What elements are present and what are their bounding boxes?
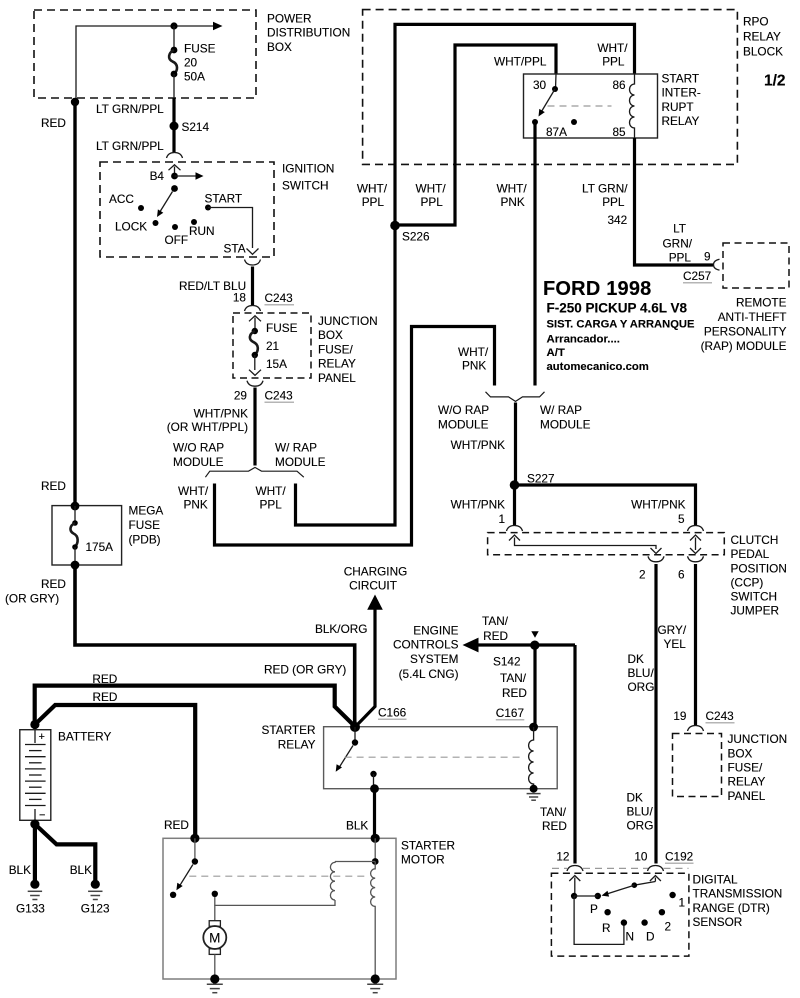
svg-text:BLU/: BLU/ xyxy=(627,805,654,819)
wire TAN/RED arrow to engine controls xyxy=(463,638,576,653)
svg-text:STA: STA xyxy=(224,242,246,256)
svg-text:175A: 175A xyxy=(86,540,114,554)
label DK BLU/ ORG lower xyxy=(627,791,654,833)
svg-text:2: 2 xyxy=(665,920,672,934)
start interrupt relay U1 box xyxy=(524,74,658,138)
svg-text:SWITCH: SWITCH xyxy=(731,590,778,604)
pin B4 entry arrow xyxy=(169,165,181,176)
label DK BLU/ ORG upper xyxy=(628,652,655,694)
svg-text:+: + xyxy=(39,731,45,743)
connector C257 arc xyxy=(714,259,720,270)
marker above S142 xyxy=(531,631,538,637)
node N contact xyxy=(621,919,627,925)
label TAN/ RED below S142 xyxy=(500,671,527,700)
label JUNCTION BOX FUSE/ RELAY PANEL 2 xyxy=(728,732,788,803)
svg-text:CIRCUIT: CIRCUIT xyxy=(349,579,397,593)
motor M1 xyxy=(203,921,226,955)
svg-text:(RAP) MODULE: (RAP) MODULE xyxy=(701,339,787,353)
svg-text:W/ RAP: W/ RAP xyxy=(540,403,582,417)
svg-text:RED: RED xyxy=(92,672,117,686)
svg-text:BLK/ORG: BLK/ORG xyxy=(315,622,367,636)
svg-text:WHT/: WHT/ xyxy=(597,41,628,55)
node 1 contact xyxy=(669,892,675,898)
svg-text:G123: G123 xyxy=(81,902,110,916)
label FUSE 21 15A xyxy=(266,321,298,371)
RAP module box xyxy=(723,243,789,288)
svg-text:G133: G133 xyxy=(16,902,45,916)
svg-text:LT GRN/PPL: LT GRN/PPL xyxy=(96,139,164,153)
svg-text:POWER: POWER xyxy=(267,12,312,26)
svg-text:−: − xyxy=(39,810,45,822)
wire BLK starter relay to motor xyxy=(373,789,376,839)
svg-text:FUSE/: FUSE/ xyxy=(318,342,353,356)
svg-text:BOX: BOX xyxy=(318,328,343,342)
starter motor hold coil L4 xyxy=(371,862,376,980)
svg-text:REMOTE: REMOTE xyxy=(736,295,787,309)
svg-text:S226: S226 xyxy=(402,230,430,244)
starter relay wiper pivot xyxy=(352,727,358,746)
DTR pin 12 entry arrow xyxy=(569,876,580,897)
wire LT GRN/PPL 342 from pin 85 xyxy=(635,138,714,265)
svg-text:1: 1 xyxy=(498,512,505,526)
svg-text:DIGITAL: DIGITAL xyxy=(693,873,738,887)
CCP internal jumper 1 to 2 xyxy=(509,535,662,554)
wire WHT/PPL to coil pin 86 (from W/RAP brace branch via S226) xyxy=(296,24,635,525)
connector C192 pin 12 arc xyxy=(567,866,583,872)
svg-text:SENSOR: SENSOR xyxy=(693,915,743,929)
CCP internal jumper 5 to 6 xyxy=(690,535,701,554)
svg-text:PEDAL: PEDAL xyxy=(731,547,770,561)
node S214 splice xyxy=(170,122,179,131)
label C243 xyxy=(265,389,295,403)
node 2 contact xyxy=(659,909,665,915)
ground starter relay coil xyxy=(527,794,541,801)
svg-text:RED (OR GRY): RED (OR GRY) xyxy=(264,663,346,677)
svg-text:LT GRN/: LT GRN/ xyxy=(582,181,628,195)
svg-text:WHT/: WHT/ xyxy=(416,182,447,196)
svg-text:WHT/PNK: WHT/PNK xyxy=(451,438,506,452)
svg-text:RED: RED xyxy=(41,116,66,130)
svg-text:RUPT: RUPT xyxy=(662,100,694,114)
svg-text:C243: C243 xyxy=(706,709,735,723)
starter relay internal dashed divider xyxy=(345,756,523,758)
svg-text:DK: DK xyxy=(628,652,645,666)
label C166 xyxy=(378,706,407,720)
svg-text:MODULE: MODULE xyxy=(173,455,224,469)
label CLUTCH PEDAL POSITION (CCP) SWITCH JUMPER xyxy=(731,533,787,618)
DTR sensor box xyxy=(551,873,689,956)
starter relay coil L2 xyxy=(529,727,534,789)
wire S227 to CCP pin 1 xyxy=(513,485,516,526)
label JUNCTION BOX FUSE/ RELAY PANEL xyxy=(318,314,378,385)
node S226 splice xyxy=(390,221,400,231)
svg-text:PPL: PPL xyxy=(602,55,625,69)
svg-text:RELAY: RELAY xyxy=(728,775,766,789)
svg-text:STARTER: STARTER xyxy=(401,839,455,853)
svg-text:18: 18 xyxy=(233,291,247,305)
STA exit arrow xyxy=(247,249,259,255)
svg-text:C192: C192 xyxy=(665,850,693,864)
wire RED (OR GRY) to starter relay xyxy=(75,565,355,726)
svg-text:INTER-: INTER- xyxy=(662,86,701,100)
starter motor box xyxy=(163,838,396,979)
node relay pin 87 unconnected xyxy=(571,119,577,125)
svg-text:19: 19 xyxy=(673,709,686,723)
wire WHT/PNK merged stem xyxy=(514,403,517,486)
wire S227 to CCP pin 5 xyxy=(515,485,696,526)
svg-text:RELAY: RELAY xyxy=(318,357,356,371)
DTR wiper from pin 10 xyxy=(602,882,656,897)
node D contact xyxy=(641,919,647,925)
node P contact xyxy=(595,893,601,899)
node starter relay output xyxy=(370,784,379,793)
label POWER DISTRIBUTION BOX xyxy=(267,12,350,54)
svg-text:ANTI-THEFT: ANTI-THEFT xyxy=(718,310,787,324)
switch feed arrow right xyxy=(175,172,204,179)
wire RED/LT BLU xyxy=(251,267,254,306)
label REMOTE ANTI-THEFT PERSONALITY (RAP) MODULE xyxy=(701,295,787,353)
label WHT/ PNK branch xyxy=(178,484,209,512)
svg-text:W/O RAP: W/O RAP xyxy=(173,441,224,455)
svg-text:6: 6 xyxy=(678,568,685,582)
svg-text:PPL: PPL xyxy=(669,250,692,264)
label C243 xyxy=(265,291,295,305)
svg-text:342: 342 xyxy=(608,213,628,227)
relay coil L1 xyxy=(630,74,635,138)
svg-text:WHT/: WHT/ xyxy=(357,182,388,196)
svg-text:BLU/: BLU/ xyxy=(628,666,655,680)
svg-text:LT GRN/PPL: LT GRN/PPL xyxy=(96,102,164,116)
svg-text:BLK: BLK xyxy=(70,863,92,877)
svg-text:BOX: BOX xyxy=(267,40,292,54)
svg-text:TAN/: TAN/ xyxy=(500,671,527,685)
svg-text:MEGA: MEGA xyxy=(129,503,164,517)
connector CCP pin 6 arc xyxy=(688,556,704,562)
svg-text:(OR GRY): (OR GRY) xyxy=(5,592,59,606)
svg-text:M: M xyxy=(209,931,220,946)
wire TAN/RED S142 to C167 xyxy=(533,645,536,727)
label LT GRN/ PPL to C257 xyxy=(663,221,693,264)
label RED (OR GRY) xyxy=(5,577,66,606)
switch wiper toward LOCK xyxy=(157,192,173,218)
svg-text:30: 30 xyxy=(533,78,547,92)
ignition switch box xyxy=(100,162,274,257)
svg-text:BATTERY: BATTERY xyxy=(58,729,111,743)
svg-text:MODULE: MODULE xyxy=(438,418,489,432)
label WHT/ PPL wire A xyxy=(357,182,388,210)
svg-text:DISTRIBUTION: DISTRIBUTION xyxy=(267,26,350,40)
node START contact xyxy=(205,205,211,211)
svg-text:BOX: BOX xyxy=(728,746,753,760)
svg-text:(OR WHT/PPL): (OR WHT/PPL) xyxy=(167,420,248,434)
label LT GRN/ PPL 342 xyxy=(582,181,628,209)
svg-text:ACC: ACC xyxy=(109,192,134,206)
svg-text:F-250 PICKUP 4.6L V8: F-250 PICKUP 4.6L V8 xyxy=(547,301,688,316)
svg-text:ORG: ORG xyxy=(628,680,655,694)
pin 18 entry arrow xyxy=(249,316,261,328)
wire motor feed xyxy=(214,905,216,920)
node RUN contact xyxy=(191,219,197,225)
svg-text:S142: S142 xyxy=(493,655,521,669)
svg-text:WHT/: WHT/ xyxy=(497,182,528,196)
svg-text:50A: 50A xyxy=(184,70,205,84)
battery BAT xyxy=(20,730,51,822)
node BLK entry terminal xyxy=(371,834,380,843)
svg-text:PPL: PPL xyxy=(421,195,444,209)
svg-text:C243: C243 xyxy=(265,291,294,305)
node LOCK contact xyxy=(153,220,159,226)
svg-text:MODULE: MODULE xyxy=(275,455,326,469)
label WHT/ PNK riser xyxy=(458,345,489,373)
wire P link xyxy=(574,895,598,897)
connector C192 pin 10 arc xyxy=(648,866,664,872)
svg-text:GRY/: GRY/ xyxy=(658,623,687,637)
starter motor switch pivot xyxy=(192,838,198,864)
svg-text:RED: RED xyxy=(93,690,118,704)
node C167 terminal xyxy=(529,723,538,732)
svg-text:TAN/: TAN/ xyxy=(540,805,567,819)
connector B4 arc xyxy=(167,153,183,159)
ground hold coil xyxy=(367,984,383,992)
starter relay wiper arm xyxy=(336,746,353,772)
svg-text:W/ RAP: W/ RAP xyxy=(275,441,317,455)
svg-text:W/O RAP: W/O RAP xyxy=(438,403,489,417)
svg-text:87A: 87A xyxy=(546,125,567,139)
svg-text:SIST. CARGA Y ARRANQUE: SIST. CARGA Y ARRANQUE xyxy=(547,319,695,331)
connector C243-18 arc xyxy=(245,306,261,312)
node mega fuse top xyxy=(71,502,80,511)
svg-text:A/T: A/T xyxy=(547,347,565,359)
wire RED battery to starter motor xyxy=(35,705,195,838)
svg-text:(5.4L CNG): (5.4L CNG) xyxy=(399,667,459,681)
node battery negative xyxy=(30,820,39,829)
svg-text:PPL: PPL xyxy=(260,498,283,512)
label GRY/ YEL xyxy=(658,623,687,651)
svg-text:(PDB): (PDB) xyxy=(129,532,161,546)
label W/ RAP MODULE mid xyxy=(540,403,591,432)
svg-text:JUNCTION: JUNCTION xyxy=(728,732,788,746)
relay wiper 30 to 87A xyxy=(539,89,556,117)
node motor ground terminal xyxy=(210,974,219,983)
connector CCP pin 1 arc xyxy=(507,526,523,532)
svg-text:RELAY: RELAY xyxy=(662,114,700,128)
wire BLK to G133 xyxy=(33,824,37,884)
wire RED battery to C166 xyxy=(35,686,355,727)
junction box fuse/relay panel C243 xyxy=(233,313,311,378)
label STARTER RELAY xyxy=(262,723,316,752)
wire BLK internal drop xyxy=(374,838,376,861)
svg-text:WHT/PNK: WHT/PNK xyxy=(451,498,506,512)
svg-text:1: 1 xyxy=(679,895,686,909)
svg-text:CLUTCH: CLUTCH xyxy=(731,533,779,547)
node relay pin 30 xyxy=(552,74,558,92)
power distribution box PDB xyxy=(34,10,256,98)
svg-text:WHT/: WHT/ xyxy=(256,484,287,498)
wire LT GRN/PPL from fuse 20 xyxy=(172,98,175,153)
ground motor xyxy=(207,984,223,992)
wire S226 branch to pin 30 xyxy=(395,45,556,225)
svg-text:ENGINE: ENGINE xyxy=(413,624,458,638)
svg-text:DK: DK xyxy=(627,791,644,805)
svg-text:FUSE: FUSE xyxy=(184,42,216,56)
svg-text:15A: 15A xyxy=(266,357,287,371)
svg-text:MOTOR: MOTOR xyxy=(401,853,445,867)
svg-text:PNK: PNK xyxy=(501,195,525,209)
svg-text:GRN/: GRN/ xyxy=(663,236,693,250)
ground G133 xyxy=(28,880,42,900)
pin 29 exit arrow xyxy=(249,370,261,376)
svg-text:PANEL: PANEL xyxy=(728,789,766,803)
svg-text:ORG: ORG xyxy=(627,819,654,833)
label C167 xyxy=(496,706,525,720)
svg-text:CHARGING: CHARGING xyxy=(344,565,408,579)
svg-text:PERSONALITY: PERSONALITY xyxy=(704,324,787,338)
svg-text:PANEL: PANEL xyxy=(318,371,356,385)
wire GRY/YEL pin 6 to C243-19 xyxy=(694,564,697,725)
svg-text:RUN: RUN xyxy=(189,224,215,238)
svg-text:STARTER: STARTER xyxy=(262,723,316,737)
svg-text:1/2: 1/2 xyxy=(764,73,786,90)
starter motor switch contact xyxy=(170,892,176,898)
svg-text:OFF: OFF xyxy=(165,233,189,247)
svg-text:IGNITION: IGNITION xyxy=(282,162,334,176)
label W/O RAP MODULE mid xyxy=(438,403,489,432)
svg-text:RED: RED xyxy=(483,629,508,643)
svg-text:FUSE: FUSE xyxy=(129,518,161,532)
svg-text:Arrancador....: Arrancador.... xyxy=(547,334,620,346)
label C257 xyxy=(683,269,712,283)
svg-text:TAN/: TAN/ xyxy=(482,614,509,628)
svg-text:SWITCH: SWITCH xyxy=(282,179,329,193)
svg-text:LT: LT xyxy=(673,221,686,235)
svg-text:S214: S214 xyxy=(182,120,210,134)
svg-text:C166: C166 xyxy=(378,706,407,720)
node OFF contact xyxy=(172,224,178,230)
svg-text:WHT/PNK: WHT/PNK xyxy=(194,407,249,421)
label W/O RAP MODULE left xyxy=(173,441,224,470)
connector C243-19 arc xyxy=(688,726,704,732)
node hold coil ground terminal xyxy=(371,974,380,983)
brace merge to S227 xyxy=(486,392,545,402)
svg-text:PPL: PPL xyxy=(362,195,385,209)
node R contact xyxy=(604,909,610,915)
svg-text:TRANSMISSION: TRANSMISSION xyxy=(693,887,783,901)
label IGNITION SWITCH xyxy=(282,162,334,193)
node B4 pivot xyxy=(171,173,178,180)
label STARTER MOTOR xyxy=(401,839,455,867)
starter motor pull-in coil L3 xyxy=(330,862,335,901)
svg-text:WHT/: WHT/ xyxy=(458,345,489,359)
label FUSE 20 50A xyxy=(184,42,216,84)
connector CCP pin 5 arc xyxy=(688,526,704,532)
svg-text:PPL: PPL xyxy=(602,195,625,209)
node coil ground terminal xyxy=(530,785,538,793)
svg-text:PNK: PNK xyxy=(184,498,208,512)
label CHARGING CIRCUIT xyxy=(344,565,408,593)
node battery positive xyxy=(30,720,39,729)
node S142 splice xyxy=(530,641,539,650)
label C192 xyxy=(665,850,694,864)
svg-text:P: P xyxy=(590,902,598,916)
svg-text:JUNCTION: JUNCTION xyxy=(318,314,378,328)
label W/ RAP MODULE left xyxy=(275,441,326,470)
svg-text:86: 86 xyxy=(613,78,627,92)
starter relay contact xyxy=(370,771,376,789)
svg-text:R: R xyxy=(602,921,611,935)
fuse 21 15A xyxy=(250,328,258,370)
brace split w/o-w/ rap xyxy=(205,467,303,477)
svg-text:29: 29 xyxy=(234,389,247,403)
label WHT/ PNK 87A wire xyxy=(497,182,528,210)
label WHT/ PPL branch xyxy=(256,484,287,512)
ground G123 xyxy=(88,880,102,900)
label TAN/ RED above S142 xyxy=(482,614,509,643)
label DIGITAL TRANSMISSION RANGE (DTR) SENSOR xyxy=(693,873,783,930)
svg-text:BLOCK: BLOCK xyxy=(743,44,783,58)
wire BLK/ORG to charging circuit xyxy=(356,595,383,727)
node C166 terminal xyxy=(350,722,360,732)
svg-text:9: 9 xyxy=(704,249,711,263)
svg-text:RED: RED xyxy=(41,479,66,493)
svg-text:2: 2 xyxy=(639,568,646,582)
svg-text:20: 20 xyxy=(184,56,198,70)
starter motor switch wiper xyxy=(176,865,193,891)
connector CCP pin 2 arc xyxy=(648,556,664,562)
svg-text:RPO: RPO xyxy=(743,14,769,28)
svg-text:5: 5 xyxy=(678,512,685,526)
fuse 20 50A xyxy=(169,26,177,98)
svg-text:FORD 1998: FORD 1998 xyxy=(543,278,652,300)
svg-text:FUSE: FUSE xyxy=(266,321,298,335)
node DTR pin12 contact xyxy=(571,893,577,899)
svg-text:D: D xyxy=(646,930,655,944)
svg-text:RANGE (DTR): RANGE (DTR) xyxy=(693,901,770,915)
label MEGA FUSE (PDB) xyxy=(129,503,164,546)
wire WHT/PNK from pin 29 xyxy=(253,388,256,466)
wire coil bottom link xyxy=(215,894,335,906)
svg-text:LOCK: LOCK xyxy=(115,220,147,234)
fuse 175A xyxy=(70,506,77,565)
label ENGINE CONTROLS SYSTEM (5.4L CNG) xyxy=(393,624,459,682)
svg-text:C257: C257 xyxy=(683,269,711,283)
svg-text:BLK: BLK xyxy=(9,863,31,877)
wire DTR internal to N xyxy=(574,896,624,944)
svg-text:JUMPER: JUMPER xyxy=(731,604,780,618)
node ACC contact xyxy=(138,205,144,211)
wire motor to ground xyxy=(214,954,216,979)
wire DK BLU/ORG pin 2 to DTR pin 10 xyxy=(654,564,657,864)
node coil tap junction xyxy=(372,858,379,865)
svg-text:RED: RED xyxy=(41,577,66,591)
svg-text:RED: RED xyxy=(164,818,189,832)
svg-text:21: 21 xyxy=(266,339,279,353)
node wiper pivot xyxy=(171,185,178,192)
node relay pin 87A xyxy=(532,119,538,125)
mega fuse box xyxy=(52,506,122,565)
CCP switch jumper box xyxy=(488,533,725,555)
svg-text:(CCP): (CCP) xyxy=(731,575,764,589)
wire START to STA pin xyxy=(208,208,253,249)
wire TAN/RED to DTR pin 12 xyxy=(573,645,576,864)
svg-text:N: N xyxy=(626,930,635,944)
label WHT/ PPL right xyxy=(597,41,628,69)
bus arrowhead xyxy=(213,22,223,30)
svg-text:85: 85 xyxy=(613,125,627,139)
wire RED battery feed down left xyxy=(73,98,76,506)
starter relay box xyxy=(324,727,558,789)
svg-text:C243: C243 xyxy=(265,389,294,403)
connector STA arc xyxy=(245,260,261,266)
